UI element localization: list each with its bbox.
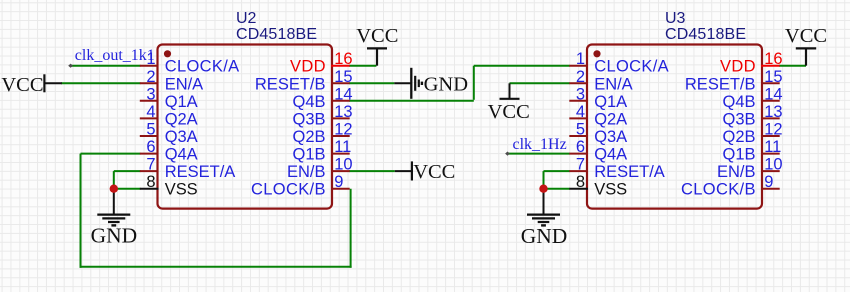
- svg-text:9: 9: [334, 173, 343, 191]
- wire U2 pin 16 to VCC flag: [349, 65, 376, 67]
- svg-text:GND: GND: [424, 74, 468, 96]
- U2 pin 2 EN/A: [140, 68, 203, 94]
- svg-text:Q4A: Q4A: [594, 146, 627, 164]
- svg-text:12: 12: [764, 121, 782, 139]
- wire U3 pin 8 to junction: [544, 188, 570, 190]
- svg-text:clk_out_1k1: clk_out_1k1: [75, 47, 155, 64]
- wire U2 pin 7 horizontal segment: [114, 170, 141, 172]
- svg-text:13: 13: [764, 103, 782, 121]
- svg-text:Q3B: Q3B: [723, 110, 756, 128]
- wire net clk_1Hz to U3 pin 6: [508, 153, 570, 155]
- net label clk_out_1k1 at U2 pin 1: [68, 47, 155, 68]
- wire VCC to U3 pin 2: [510, 82, 570, 84]
- op IC U3 CD4518BE dual BCD counter: [569, 10, 782, 209]
- U2 pin 11 Q1B: [293, 138, 352, 164]
- power flag VCC at U3 pin 16: [785, 25, 827, 66]
- svg-text:VCC: VCC: [785, 25, 827, 47]
- U2 pin 5 Q3A: [140, 121, 198, 147]
- svg-text:11: 11: [334, 138, 351, 156]
- wire U2 pin 14 to U3 pin 1, vertical segment: [473, 66, 475, 100]
- svg-text:Q3A: Q3A: [594, 128, 627, 146]
- svg-text:6: 6: [146, 138, 155, 156]
- svg-text:Q1A: Q1A: [594, 93, 627, 111]
- svg-text:Q1A: Q1A: [165, 93, 198, 111]
- U2 pin 6 Q4A: [140, 138, 198, 164]
- svg-text:EN/A: EN/A: [594, 75, 633, 93]
- wire U2 pin 8 to junction: [114, 188, 141, 190]
- svg-text:10: 10: [764, 156, 782, 174]
- svg-text:4: 4: [576, 103, 585, 121]
- power flag VCC at U2 pin 2 (left edge): [1, 74, 62, 96]
- svg-text:1: 1: [576, 50, 585, 68]
- wire U3 pin 16 to VCC flag: [779, 65, 806, 67]
- svg-text:CLOCK/A: CLOCK/A: [165, 58, 240, 76]
- svg-text:14: 14: [334, 85, 352, 103]
- svg-text:VSS: VSS: [165, 181, 198, 199]
- svg-text:VDD: VDD: [290, 58, 326, 76]
- wire U2 pin 9 loop, right vertical segment: [350, 189, 352, 268]
- svg-text:9: 9: [764, 173, 773, 191]
- svg-text:11: 11: [764, 138, 781, 156]
- wire VCC to U2 pin 2: [61, 82, 141, 84]
- U3 pin 14 Q4B: [723, 85, 783, 111]
- power flag VCC at U2 pin 16: [356, 25, 398, 66]
- U3 pin 8 VSS: [569, 173, 627, 199]
- svg-text:CD4518BE: CD4518BE: [236, 26, 317, 43]
- svg-text:clk_1Hz: clk_1Hz: [513, 136, 567, 153]
- svg-text:CD4518BE: CD4518BE: [665, 26, 746, 43]
- U3 pin 1 CLOCK/A: [569, 50, 668, 76]
- svg-text:CLOCK/A: CLOCK/A: [594, 58, 669, 76]
- power flag VCC at U2 pin 10: [395, 161, 456, 183]
- svg-text:6: 6: [576, 138, 585, 156]
- svg-text:5: 5: [576, 121, 585, 139]
- U2 pin 1 marker dot: [164, 50, 171, 57]
- U3 pin 6 Q4A: [569, 138, 627, 164]
- svg-text:Q2A: Q2A: [594, 110, 627, 128]
- svg-text:10: 10: [334, 156, 352, 174]
- wire U2 pin 14 to U3 pin 1, top segment: [474, 65, 570, 67]
- U3 pin 11 Q1B: [723, 138, 782, 164]
- wire U3 pin 7 horizontal segment: [544, 170, 570, 172]
- U2 pin 12 Q2B: [293, 121, 353, 147]
- svg-text:16: 16: [334, 50, 352, 68]
- U3 pin 4 Q2A: [569, 103, 627, 128]
- svg-text:Q3B: Q3B: [293, 110, 326, 128]
- svg-text:RESET/A: RESET/A: [165, 163, 236, 181]
- U2 pin 7 RESET/A: [140, 156, 235, 182]
- svg-text:2: 2: [146, 68, 155, 86]
- svg-text:3: 3: [576, 85, 585, 103]
- U2 pin 16 VDD: [290, 50, 353, 76]
- svg-text:3: 3: [146, 85, 155, 103]
- wire U2 pin 9 loop, bottom segment: [80, 266, 352, 268]
- wire U3 pin 7 vertical segment: [543, 171, 545, 189]
- svg-text:RESET/B: RESET/B: [255, 75, 326, 93]
- U2 pin 4 Q2A: [140, 103, 198, 128]
- svg-text:EN/A: EN/A: [165, 75, 204, 93]
- svg-text:RESET/B: RESET/B: [685, 75, 756, 93]
- svg-text:16: 16: [764, 50, 782, 68]
- power flag GND at U2 pin 15: [394, 68, 468, 99]
- op IC U2 CD4518BE dual BCD counter: [140, 10, 353, 209]
- svg-text:Q4B: Q4B: [723, 93, 756, 111]
- svg-text:VCC: VCC: [1, 74, 43, 96]
- svg-text:EN/B: EN/B: [287, 163, 326, 181]
- svg-text:VSS: VSS: [594, 181, 627, 199]
- U3 pin 7 RESET/A: [569, 156, 665, 182]
- svg-text:VCC: VCC: [488, 101, 530, 123]
- U2 pin 3 Q1A: [140, 85, 198, 111]
- U3 pin 10 EN/B: [717, 156, 783, 182]
- U3 pin 2 EN/A: [569, 68, 632, 94]
- svg-text:Q1B: Q1B: [293, 146, 326, 164]
- ground symbol GND below U2: [91, 189, 138, 248]
- U3 pin 9 CLOCK/B: [681, 173, 780, 199]
- svg-text:Q2A: Q2A: [165, 110, 198, 128]
- U3 pin 15 RESET/B: [685, 68, 783, 94]
- svg-text:13: 13: [334, 103, 352, 121]
- svg-text:EN/B: EN/B: [717, 163, 756, 181]
- U2 pin 10 EN/B: [287, 156, 353, 182]
- svg-text:7: 7: [146, 156, 155, 174]
- wire net clk_out_1k1 to U2 pin 1: [71, 65, 141, 67]
- U2 body: [158, 45, 333, 209]
- U2 pin 9 CLOCK/B: [251, 173, 350, 199]
- power flag VCC at U3 pin 2 (inverted): [488, 83, 530, 123]
- wire U2 pin 15 to GND flag: [349, 82, 394, 84]
- U3 pin 12 Q2B: [723, 121, 783, 147]
- svg-text:4: 4: [146, 103, 155, 121]
- svg-text:7: 7: [576, 156, 585, 174]
- svg-text:RESET/A: RESET/A: [594, 163, 665, 181]
- svg-text:VCC: VCC: [413, 161, 455, 183]
- svg-text:14: 14: [764, 85, 782, 103]
- U3 pin 5 Q3A: [569, 121, 627, 147]
- U2 pin 15 RESET/B: [255, 68, 353, 94]
- wire U2 pin 14 to U3 pin 1, horizontal segment: [349, 100, 474, 102]
- svg-text:12: 12: [334, 121, 352, 139]
- U3 pin 13 Q3B: [723, 103, 783, 128]
- svg-text:Q3A: Q3A: [165, 128, 198, 146]
- U3 pin 16 VDD: [720, 50, 783, 76]
- svg-text:CLOCK/B: CLOCK/B: [251, 181, 326, 199]
- U2 pin 13 Q3B: [293, 103, 353, 128]
- svg-text:Q2B: Q2B: [293, 128, 326, 146]
- U2 pin 8 VSS: [140, 173, 198, 199]
- svg-text:CLOCK/B: CLOCK/B: [681, 181, 756, 199]
- U2 pin 14 Q4B: [293, 85, 353, 111]
- U3 body: [587, 45, 762, 209]
- svg-text:15: 15: [764, 68, 782, 86]
- net label clk_1Hz at U3 pin 6: [505, 136, 567, 156]
- ground symbol GND below U3: [521, 189, 568, 249]
- junction at U2 pins 7/8/GND node: [110, 185, 118, 193]
- svg-text:GND: GND: [521, 224, 568, 248]
- svg-text:Q4B: Q4B: [293, 93, 326, 111]
- wire U2 pin 7 vertical segment: [113, 171, 115, 189]
- svg-text:2: 2: [576, 68, 585, 86]
- svg-text:8: 8: [146, 173, 155, 191]
- svg-text:U2: U2: [236, 10, 257, 27]
- svg-text:VDD: VDD: [720, 58, 756, 76]
- wire U2 pin 6 segment: [81, 153, 141, 155]
- svg-text:Q2B: Q2B: [723, 128, 756, 146]
- svg-text:8: 8: [576, 173, 585, 191]
- svg-text:VCC: VCC: [356, 25, 398, 47]
- U3 pin 3 Q1A: [569, 85, 627, 111]
- svg-text:GND: GND: [91, 224, 138, 248]
- junction at U3 pins 7/8/GND node: [539, 185, 547, 193]
- U3 pin 1 marker dot: [593, 50, 600, 57]
- U2 pin 1 CLOCK/A: [140, 50, 239, 76]
- svg-text:15: 15: [334, 68, 352, 86]
- svg-text:Q1B: Q1B: [723, 146, 756, 164]
- wire U2 pin 9 loop, left vertical segment: [80, 154, 82, 268]
- svg-text:U3: U3: [665, 10, 686, 27]
- svg-text:5: 5: [146, 121, 155, 139]
- svg-text:Q4A: Q4A: [165, 146, 198, 164]
- wire U2 pin 10 to VCC flag: [349, 170, 395, 172]
